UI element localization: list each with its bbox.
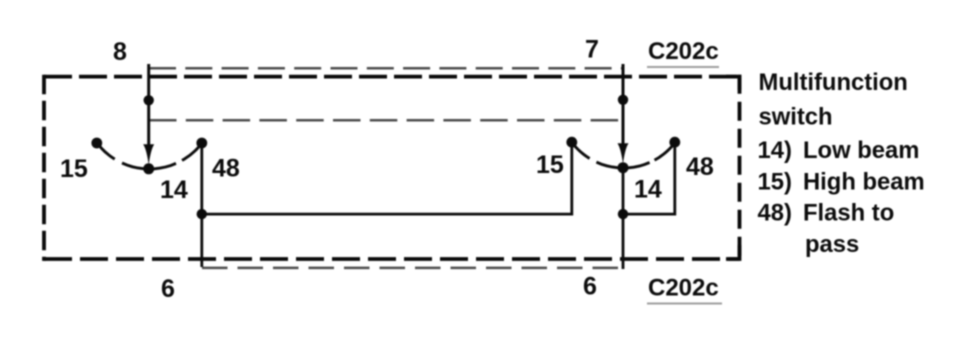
wire right 14 contact down to bottom pin 6 <box>622 168 625 269</box>
right switch contact 15 dot <box>566 137 577 148</box>
top connector dashed line (gray, pin 8 to pin 7) <box>149 67 623 70</box>
junction dot on pin 8 wire <box>144 95 154 105</box>
svg-text:Flash to: Flash to <box>803 200 894 227</box>
wire pin 7 vertical / right switch arm shaft <box>622 64 625 149</box>
svg-text:48: 48 <box>686 153 714 181</box>
right switch throw arc segment b <box>596 162 649 168</box>
svg-text:15: 15 <box>536 151 564 179</box>
left switch contact 14 dot <box>143 163 154 174</box>
svg-text:6: 6 <box>161 275 175 303</box>
wire from left 48 contact down to bottom pin 6 <box>200 143 203 267</box>
svg-text:14): 14) <box>758 137 792 164</box>
svg-text:6: 6 <box>583 273 597 301</box>
svg-text:14: 14 <box>160 176 188 204</box>
svg-text:Low beam: Low beam <box>803 137 919 164</box>
junction dot on left 48 wire <box>197 209 207 219</box>
svg-text:8: 8 <box>113 38 127 66</box>
wire from right 48 contact down and left to junction <box>623 142 675 214</box>
left switch throw arc segment c <box>182 143 202 160</box>
enclosure right edge <box>738 75 742 261</box>
right switch contact 14 dot <box>618 162 629 173</box>
mechanical link dashed line between switch arms <box>149 119 623 122</box>
svg-text:7: 7 <box>585 36 599 64</box>
svg-text:pass: pass <box>805 231 859 258</box>
junction dot on right 14 wire <box>618 209 628 219</box>
right switch contact 48 dot <box>669 137 680 148</box>
junction dot on pin 7 wire <box>618 95 628 105</box>
left switch throw arc (dashed) segment a <box>97 143 115 159</box>
left switch contact 15 dot <box>91 138 102 149</box>
connector underline top <box>647 66 719 68</box>
enclosure bottom-right corner piece <box>726 245 740 259</box>
right switch throw arc segment c <box>655 142 676 160</box>
enclosure bottom edge <box>44 257 740 261</box>
svg-text:48): 48) <box>758 200 792 227</box>
svg-text:48: 48 <box>212 155 240 183</box>
right switch throw arc (dashed) segment a <box>572 142 590 158</box>
enclosure top-right corner piece <box>726 77 740 90</box>
svg-text:switch: switch <box>759 103 833 130</box>
svg-text:C202c: C202c <box>648 275 719 302</box>
svg-text:C202c: C202c <box>648 38 719 65</box>
multifunction switch dashed enclosure box <box>44 75 740 79</box>
bottom connector dashed line (gray, pin 6 to pin 6) <box>202 267 623 270</box>
svg-text:Multifunction: Multifunction <box>759 69 908 96</box>
wire pin 8 vertical / left switch arm shaft <box>147 64 150 150</box>
wire horizontal link left 48 to right 15 <box>202 142 572 214</box>
right arm arrowhead <box>618 143 629 164</box>
left arm arrowhead <box>143 144 154 165</box>
enclosure left edge <box>42 75 46 261</box>
svg-text:14: 14 <box>634 176 662 204</box>
connector underline bottom <box>647 303 722 305</box>
svg-text:15): 15) <box>758 168 792 195</box>
svg-text:High beam: High beam <box>803 168 925 195</box>
left switch contact 48 dot <box>196 138 207 149</box>
left switch throw arc segment b <box>122 163 176 169</box>
svg-text:15: 15 <box>60 155 88 183</box>
